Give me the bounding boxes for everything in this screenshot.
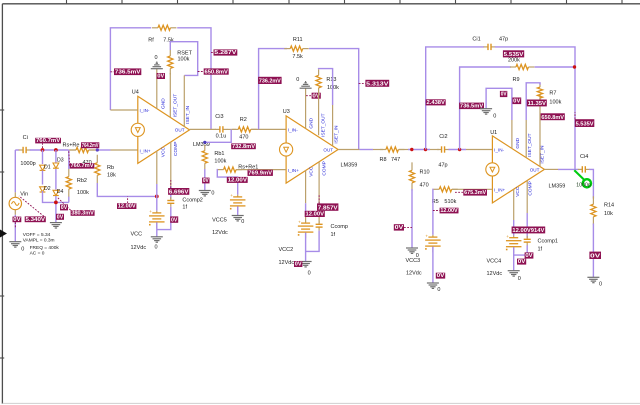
wire D3 top: [55, 150, 57, 163]
wire R8 left lead: [373, 149, 383, 151]
bias 5.535V U1 out: [575, 112, 595, 128]
resistor R5: [433, 187, 458, 192]
svg-text:Ci1: Ci1: [472, 36, 480, 42]
bias 12.00V U3 VCC: [305, 211, 325, 218]
svg-text:ISET_IN: ISET_IN: [185, 105, 191, 124]
svg-text:ISET_OUT: ISET_OUT: [321, 113, 327, 137]
bias 650.8mV U1 isetin: [541, 113, 565, 121]
svg-text:2.438V: 2.438V: [427, 100, 446, 106]
svg-text:COMP: COMP: [528, 181, 534, 195]
ground 0 below Rb1: [199, 191, 211, 196]
svg-text:470: 470: [239, 134, 248, 140]
resistor Rf: [152, 25, 177, 30]
bias 760.7mV secondary: [69, 151, 94, 169]
ground 0 below VCC5: [232, 216, 244, 221]
wire R10 to ground: [411, 189, 413, 248]
wire D1 top: [42, 150, 44, 164]
bias 675.3mV U1 in+: [455, 189, 487, 196]
pin ISET_OUT U4 wire: [169, 73, 171, 117]
svg-text:380.3mV: 380.3mV: [71, 210, 94, 216]
bias 0V VCC3 ground wire: [436, 273, 445, 280]
junction R8 right: [410, 148, 413, 151]
bias 769.9mV U3 in+: [248, 170, 273, 177]
pin ISET_IN U4 wire: [183, 75, 185, 126]
bias 0V VCC2 ground: [294, 261, 302, 268]
capacitor Ccomp2: [167, 197, 174, 207]
svg-text:+: +: [149, 209, 152, 214]
svg-text:12Vdc: 12Vdc: [212, 230, 228, 236]
ground 0 below diodes: [50, 223, 62, 228]
selection highlight ring green: [583, 179, 591, 187]
stub OUT U1: [544, 168, 558, 170]
wire D3-D4: [55, 169, 57, 190]
svg-text:I_IN-: I_IN-: [140, 108, 150, 113]
wire Ccomp1 bottom: [514, 245, 528, 255]
wire R5 right to I_IN+: [452, 188, 492, 190]
wire R5 left down: [432, 189, 435, 235]
voltage source Vin: [14, 192, 16, 215]
wire RSET loop: [170, 42, 197, 76]
svg-text:0: 0: [437, 287, 440, 293]
stub I_IN- U4: [110, 109, 137, 111]
wire VCC2 to ground: [305, 233, 307, 262]
svg-text:200k: 200k: [508, 57, 520, 63]
diode D2: [40, 187, 46, 192]
bias 0V Rb1: [202, 178, 209, 184]
wire Rs+Re1 right to I_IN+: [236, 169, 286, 171]
svg-text:R9: R9: [513, 77, 520, 83]
svg-text:ISET_OUT: ISET_OUT: [172, 94, 178, 118]
svg-text:0: 0: [21, 247, 24, 253]
capacitor Ci4: [578, 166, 590, 172]
capacitor Ci2: [437, 146, 449, 152]
wire Rs+Re left lead: [69, 149, 76, 151]
wire R14 to ground: [592, 224, 594, 278]
bias 12.00V VCC5: [227, 177, 248, 184]
wire Ccomp bottom: [306, 231, 320, 252]
pin GND U3 wire: [305, 89, 307, 129]
wire Vin top column: [14, 150, 16, 192]
svg-text:ISET_OUT: ISET_OUT: [527, 133, 533, 157]
svg-text:0: 0: [599, 281, 602, 287]
wire Ci1 to corner: [495, 47, 575, 169]
wire U4 feedback left: [110, 28, 151, 110]
svg-text:12.00V: 12.00V: [306, 212, 325, 218]
svg-text:VCC: VCC: [160, 147, 166, 158]
bias 732.8mV Ci3-R2 node: [231, 143, 256, 149]
wire VCC5 to ground: [237, 207, 239, 216]
ground 0 below R10: [406, 248, 418, 253]
svg-text:VCC5: VCC5: [212, 218, 227, 224]
wire Ci3 to R2: [227, 128, 236, 130]
wire feedback up: [426, 47, 484, 150]
svg-text:VCC: VCC: [309, 166, 315, 177]
junction R9 tap: [458, 148, 461, 151]
bias 0V U1 vcc gnd: [517, 259, 526, 266]
junction Rb top: [96, 148, 99, 151]
svg-text:COMP: COMP: [173, 142, 179, 156]
wire Ci2 left lead: [430, 149, 439, 151]
svg-text:+: +: [298, 219, 301, 224]
svg-text:OUT: OUT: [323, 148, 333, 153]
svg-text:0: 0: [518, 276, 521, 282]
svg-text:0: 0: [296, 77, 299, 83]
wire Rs+Re1 left Z: [217, 170, 237, 195]
svg-text:732.8mV: 732.8mV: [232, 144, 256, 150]
svg-text:0: 0: [308, 270, 311, 276]
diode D4: [53, 190, 59, 195]
resistor R7: [537, 83, 542, 102]
svg-text:1f: 1f: [538, 246, 543, 252]
svg-text:FREQ = 400k: FREQ = 400k: [30, 245, 60, 251]
resistor Rs+Re: [70, 147, 95, 152]
capacitor Ci: [19, 147, 31, 153]
svg-text:0V: 0V: [437, 273, 445, 279]
bias 0V U1 gnd wire: [500, 91, 507, 98]
selection highlight wire green: [574, 170, 585, 181]
svg-text:VCC: VCC: [131, 232, 143, 238]
ruler ticks top: [67, 0, 623, 4]
pin GND U1 wire: [511, 120, 513, 148]
svg-text:D2: D2: [44, 186, 51, 192]
bias 0V R10: [394, 224, 412, 231]
svg-text:Ci: Ci: [23, 135, 28, 141]
junction node A1: [41, 148, 45, 152]
svg-text:0V: 0V: [295, 262, 302, 268]
wire Ci2 to U1: [449, 149, 467, 151]
resistor R13: [316, 69, 321, 94]
resistor Rb: [95, 155, 100, 184]
svg-text:18k: 18k: [107, 172, 116, 178]
svg-text:VCC4: VCC4: [487, 258, 502, 264]
svg-text:Rf: Rf: [148, 37, 154, 43]
svg-text:12Vdc: 12Vdc: [279, 260, 295, 266]
wire Ci3 drop to Rb1: [205, 129, 231, 142]
capacitor Ci1: [484, 44, 496, 50]
svg-text:Ci3: Ci3: [215, 114, 223, 120]
svg-text:0V: 0V: [312, 93, 320, 99]
svg-text:100k: 100k: [77, 190, 89, 196]
svg-text:5.313V: 5.313V: [366, 81, 389, 87]
wire Rb1 to ground: [204, 169, 206, 191]
svg-text:747: 747: [391, 157, 400, 163]
bias 0V diode bottom: [60, 204, 68, 211]
svg-text:7.5k: 7.5k: [292, 54, 303, 60]
svg-text:0: 0: [493, 113, 496, 119]
svg-text:ISET_IN: ISET_IN: [333, 125, 339, 144]
svg-text:Ccomp1: Ccomp1: [538, 238, 558, 244]
svg-text:736.5mV: 736.5mV: [115, 70, 141, 76]
wire Ci4 to R14: [589, 169, 593, 198]
svg-text:0V: 0V: [590, 254, 601, 260]
voltage source Vin symbol: [9, 197, 21, 209]
ground 0 below VCC4: [508, 271, 520, 276]
junction VCC rail: [155, 195, 159, 199]
bias 12.00V914V U1: [512, 227, 546, 235]
svg-text:100k: 100k: [549, 99, 561, 105]
svg-text:760.7mV: 760.7mV: [71, 163, 95, 169]
svg-text:Ci4: Ci4: [580, 154, 588, 160]
svg-text:47p: 47p: [438, 162, 447, 168]
wire U3 VCC down: [305, 203, 307, 212]
svg-text:+: +: [506, 234, 509, 239]
junction R9 feedback: [573, 65, 576, 68]
svg-text:Rb1: Rb1: [214, 151, 224, 157]
stub OUT U4: [190, 128, 217, 130]
wire VCC3 to ground: [432, 247, 434, 283]
svg-text:LM359: LM359: [549, 183, 566, 189]
resistor R11: [284, 46, 309, 51]
svg-text:0V: 0V: [203, 178, 209, 184]
svg-text:I_IN-: I_IN-: [494, 148, 504, 153]
ruler position marker: [0, 230, 7, 238]
wire Rs+Re to I_IN+: [97, 149, 110, 151]
svg-text:D1: D1: [44, 164, 51, 170]
svg-text:1f: 1f: [331, 232, 336, 238]
svg-text:D4: D4: [57, 189, 64, 195]
wire R9 right: [535, 66, 575, 68]
svg-text:D3: D3: [57, 157, 64, 163]
svg-text:0V: 0V: [57, 214, 64, 220]
svg-text:12.00V: 12.00V: [228, 178, 248, 184]
svg-text:0V: 0V: [501, 92, 507, 98]
wire VCC4 to ground: [513, 247, 515, 270]
pin GND U4 wire: [156, 69, 158, 109]
wire U4 COMP down: [170, 186, 172, 199]
svg-text:+: +: [425, 233, 428, 238]
svg-text:Rs+Re: Rs+Re: [63, 142, 80, 148]
resistor Rb2: [66, 169, 71, 198]
svg-text:760.7mV: 760.7mV: [36, 138, 61, 144]
svg-text:Ccomp2: Ccomp2: [182, 198, 202, 204]
pin ISET_OUT U1 wire: [525, 120, 527, 158]
svg-text:11.35V: 11.35V: [528, 101, 547, 107]
svg-text:Ci2: Ci2: [439, 134, 447, 140]
wire Rb2 top stub: [68, 150, 70, 169]
resistor R9: [510, 64, 535, 69]
svg-text:650.8mV: 650.8mV: [541, 115, 564, 121]
ground 0 below VCC2: [300, 262, 312, 267]
bias 0V Ccomp1: [525, 252, 534, 259]
svg-text:510k: 510k: [444, 199, 456, 205]
svg-text:5.340V: 5.340V: [26, 217, 46, 223]
svg-text:7.857V: 7.857V: [318, 205, 338, 211]
wire Vin bottom: [14, 215, 16, 242]
svg-text:0V: 0V: [13, 217, 21, 223]
wire Rs+Re right lead: [89, 149, 98, 151]
svg-text:1f: 1f: [182, 205, 187, 211]
bias 0V U1 gnd pin: [512, 98, 521, 105]
pin VCC U3 wire: [305, 170, 307, 203]
svg-text:AC = 0: AC = 0: [30, 251, 45, 257]
op-amp U4 LM359: [131, 96, 189, 163]
svg-text:R13: R13: [326, 77, 336, 83]
capacitor Ccomp1: [524, 236, 531, 246]
wire Ci to node A: [30, 149, 69, 151]
svg-text:0V: 0V: [513, 99, 521, 105]
svg-text:650.8mV: 650.8mV: [205, 69, 229, 75]
wire input node to Ci: [15, 149, 19, 151]
resistor Rs+Re1: [218, 167, 243, 172]
svg-text:769.9mV: 769.9mV: [248, 171, 272, 177]
bias 0V U4 gnd: [157, 73, 165, 80]
svg-text:R7: R7: [549, 91, 556, 97]
sheet border top: [2, 3, 640, 5]
wire R13 loop: [319, 69, 333, 105]
pin ISET_IN U3 wire: [332, 105, 334, 146]
wire R11 right: [309, 49, 359, 150]
ground 0 below VCC: [151, 237, 163, 242]
bias 380.3mV diode mid: [58, 198, 95, 217]
svg-text:GND: GND: [160, 98, 166, 109]
junction node A2: [54, 148, 58, 152]
ground 0 above U3: [300, 81, 312, 88]
svg-text:764.2mV: 764.2mV: [82, 143, 99, 149]
wire U1 out: [558, 168, 579, 170]
svg-text:0: 0: [211, 191, 214, 197]
bias 7.857V U3 comp: [317, 195, 338, 211]
wire R2 to U3 I_IN-: [251, 128, 286, 130]
op-amp U3 LM359: [280, 116, 339, 183]
bias 6.696V U4 comp: [168, 180, 189, 195]
capacitor Ccomp: [316, 221, 323, 231]
sheet border bottom: [2, 402, 640, 404]
bias 11.35V U1 iset: [527, 100, 547, 108]
svg-text:0V: 0V: [395, 225, 404, 231]
svg-text:0: 0: [155, 55, 158, 61]
svg-text:736.2mV: 736.2mV: [259, 79, 281, 85]
svg-text:U4: U4: [132, 90, 139, 96]
svg-text:1000p: 1000p: [20, 161, 35, 167]
resistor R2: [232, 127, 257, 132]
svg-text:1000p: 1000p: [576, 182, 591, 188]
svg-text:6.696V: 6.696V: [169, 189, 189, 195]
svg-text:0V: 0V: [61, 205, 68, 211]
pin ISET_IN U1 wire: [539, 95, 541, 167]
bias 5.340V Vin top: [19, 196, 46, 223]
bias 0V Vin bottom: [13, 217, 22, 228]
resistor Rb1: [202, 145, 207, 170]
svg-text:U1: U1: [490, 130, 497, 136]
junction diode bottom node: [54, 201, 58, 205]
svg-text:0V: 0V: [157, 74, 164, 80]
wire D4 bottom: [55, 196, 57, 223]
wire D1-D2: [42, 171, 44, 185]
ground 0 below R14: [587, 277, 599, 282]
pin VCC U1 wire: [513, 189, 515, 220]
pin COMP U3 wire: [318, 162, 320, 223]
wire R8 right lead: [399, 149, 408, 151]
wire Ccomp2 bottom: [157, 207, 171, 230]
svg-text:0V: 0V: [171, 217, 178, 223]
svg-text:U3: U3: [283, 109, 290, 115]
svg-text:OUT: OUT: [175, 128, 185, 133]
bias 2.438V feedback: [426, 99, 446, 106]
wire U4 feedback right: [177, 28, 211, 130]
wire R7 loop: [526, 83, 540, 120]
svg-text:10k: 10k: [604, 211, 613, 217]
svg-text:R11: R11: [293, 37, 303, 43]
wire U1 VCC down: [513, 220, 515, 236]
wire Rb bottom to VCC rail: [97, 183, 157, 196]
svg-text:Vin: Vin: [20, 192, 28, 198]
svg-text:0.1u: 0.1u: [216, 133, 227, 139]
svg-text:I_IN+: I_IN+: [494, 188, 505, 193]
ruler ticks left: [0, 110, 4, 358]
svg-text:RSET: RSET: [177, 50, 192, 56]
battery VCC3 12Vdc: [425, 233, 441, 252]
svg-text:100k: 100k: [214, 158, 226, 164]
svg-text:100k: 100k: [178, 57, 190, 63]
svg-text:OUT: OUT: [530, 167, 540, 172]
bias 650.8mV U4 iset: [198, 68, 229, 75]
svg-text:Ccomp: Ccomp: [331, 224, 348, 230]
bias 5.313V U3 out: [359, 80, 389, 88]
svg-text:47p: 47p: [499, 36, 508, 42]
svg-text:Rb: Rb: [107, 165, 114, 171]
wire R11 left: [259, 49, 287, 130]
bias 5.535V top: [503, 50, 524, 58]
stub OUT U3: [338, 149, 359, 151]
wire U1 COMP down: [526, 213, 528, 238]
sheet border left: [1, 4, 3, 404]
diode D3: [53, 163, 59, 168]
stub I_IN- U1: [466, 149, 492, 151]
svg-text:VCC3: VCC3: [406, 258, 421, 264]
wire U1 GND loop: [486, 88, 512, 120]
wire R9 branch: [460, 67, 511, 150]
pin ISET_OUT U3 wire: [318, 93, 320, 136]
ground 0 U1: [480, 109, 492, 114]
bias 0V diode ground: [56, 214, 64, 221]
bias 0V U3 gnd: [306, 93, 321, 100]
wire U4 VCC down: [156, 184, 158, 211]
op-amp U1 LM359: [486, 136, 545, 203]
bias 5.287V U4 out: [211, 49, 237, 56]
wire VCC battery to ground: [156, 223, 158, 237]
battery VCC2 12Vdc: [298, 219, 314, 238]
battery VCC 12Vdc: [149, 209, 165, 228]
svg-text:+: +: [230, 193, 233, 198]
wire Rb2 bottom stub: [68, 197, 70, 203]
svg-text:GND: GND: [309, 117, 315, 128]
svg-text:VOFF = 5.34: VOFF = 5.34: [23, 232, 51, 238]
svg-text:I_IN-: I_IN-: [288, 128, 298, 133]
resistor RSET: [168, 50, 173, 74]
svg-text:LM359: LM359: [193, 142, 210, 148]
ground 0 below VCC3 battery: [427, 283, 439, 288]
svg-text:12Vdc: 12Vdc: [131, 245, 147, 251]
svg-text:VCC: VCC: [515, 186, 521, 197]
pin COMP U4 wire: [170, 142, 172, 186]
pin VCC U4 wire: [156, 151, 158, 184]
svg-text:12.00V914V: 12.00V914V: [512, 228, 545, 234]
junction Rb1 top: [203, 141, 206, 144]
ground 0 above U4: [151, 62, 163, 69]
svg-text:0V: 0V: [518, 259, 526, 265]
resistor R8: [380, 147, 405, 152]
stub I_IN+ U4: [111, 149, 138, 151]
bias 736.5mV U1 in-: [459, 103, 484, 110]
svg-text:12Vdc: 12Vdc: [406, 270, 422, 276]
resistor R14: [591, 196, 596, 225]
svg-text:0V: 0V: [525, 253, 533, 259]
svg-text:5.287V: 5.287V: [214, 50, 237, 56]
svg-text:VCC2: VCC2: [279, 247, 294, 253]
bias 760.7mV node A: [35, 138, 61, 148]
junction feedback tap: [424, 148, 427, 151]
svg-text:R14: R14: [604, 203, 614, 209]
